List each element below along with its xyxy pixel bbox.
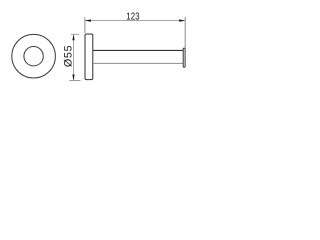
rod bottom line (side view, light) xyxy=(93,62,183,64)
wall plate (side view) xyxy=(85,34,93,80)
extension line left (123 dimension) xyxy=(84,18,86,34)
outer circle (front view, rosette Ø55) xyxy=(12,34,56,78)
extension line bottom (Ø55 dimension) xyxy=(69,80,80,82)
extension line top (Ø55 dimension) xyxy=(71,33,79,35)
rod top line (side view) xyxy=(93,49,183,51)
label Ø55 (rotated) xyxy=(64,46,72,67)
label 123 xyxy=(127,13,139,20)
arrowhead up (Ø55) xyxy=(72,34,74,40)
arrowhead right (123) xyxy=(179,19,185,21)
dimension line horizontal (123) xyxy=(85,20,185,22)
dimension line vertical (Ø55) xyxy=(73,34,75,80)
arrowhead left (123) xyxy=(85,19,91,21)
inner circle (front view, rod end) xyxy=(24,47,43,66)
extension line right (123 dimension) xyxy=(184,17,186,48)
end cap (side view) xyxy=(183,48,185,67)
arrowhead down (Ø55) xyxy=(72,75,74,81)
